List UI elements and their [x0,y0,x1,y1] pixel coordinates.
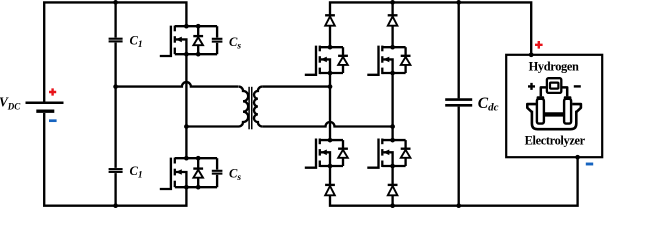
capacitor C1 (lower) [109,169,123,172]
electrolyzer - terminal mark [586,163,593,166]
wire: C1 bottom lead [114,173,116,206]
capacitor Cdc [445,100,472,106]
wire: right leg top lead [391,2,393,15]
node: bottom rail / C1 junction [113,203,118,208]
node: secondary top / left leg junction [328,84,333,89]
diode D3 (left leg bottom) [325,185,335,195]
diode D2 (right leg top) [388,15,398,25]
wire: lower C1 branch [114,87,116,168]
wire: secondary top rail and electrolyzer positive feed [330,2,531,54]
electrolyzer icon [527,78,581,129]
electrolyzer box [506,55,602,157]
svg-text:Hydrogen: Hydrogen [529,60,579,74]
wire: battery top lead, primary top rail, Q1 drain lead [44,2,186,101]
wire: upper C1 branch [114,2,116,37]
wire: switch-leg vertical between Q1 and Q2 [185,54,187,158]
wire: Cdc bottom lead [458,107,460,206]
node: top rail / right leg junction [390,0,395,5]
node: bottom rail / right leg junction [390,203,395,208]
svg-text:Electrolyzer: Electrolyzer [525,133,586,147]
wire: secondary bottom wire with hop over left leg [262,122,392,127]
capacitor C1 (upper) [109,39,123,42]
wire: secondary top wire to left bridge leg [262,85,330,87]
node: C1 midpoint junction [113,84,118,89]
capacitor Cs (lower snubber) [212,158,223,187]
node: top rail / C1 branch junction [113,0,118,5]
wire: right leg mid vertical [391,73,393,140]
mosfet Q4 (bridge upper right) [367,45,410,75]
svg-text:C1: C1 [130,164,143,181]
capacitor Cs (upper snubber) [212,26,223,54]
wire: D1 to Q3 drain [329,26,331,48]
node: electrolyzer positive terminal [529,52,534,57]
mosfet Q6 (bridge lower right) [367,138,410,169]
battery + polarity mark [49,88,56,95]
transformer secondary winding [254,87,262,127]
battery V_DC [26,103,64,111]
svg-text:Cs: Cs [229,166,241,183]
wire: Q5 source to D3 [329,166,331,185]
diode D4 (right leg bottom) [388,185,398,195]
electrolyzer + terminal mark [535,41,543,49]
battery - polarity mark [49,119,57,122]
node: secondary bottom / right leg junction [390,124,395,129]
diode D1 (left leg top) [325,15,335,25]
mosfet Q5 (bridge lower left) [305,138,348,169]
wire: secondary bottom rail and electrolyzer negative feed [330,157,578,206]
wire: left leg mid vertical [329,73,331,140]
transformer core [249,87,252,130]
node: primary winding return junction [184,124,189,129]
wire: Cdc top lead [458,2,460,98]
mosfet Q1 (primary upper) [160,24,217,57]
wire: C1 midpoint branch [114,43,116,87]
node: electrolyzer negative terminal [575,155,580,160]
mosfet Q2 (primary lower) [160,156,217,190]
wire: primary mid wire with hop over switch leg [116,82,239,87]
node: top rail / Cdc junction [456,0,461,5]
transformer primary winding [186,87,248,127]
svg-text:VDC: VDC [0,94,21,111]
wire: battery bottom lead, primary bottom rail, Q2 source lead [44,113,186,206]
wire: D2 to Q4 drain [391,26,393,48]
svg-text:Cs: Cs [229,35,241,52]
svg-text:C1: C1 [130,34,143,51]
mosfet Q3 (bridge upper left) [305,45,348,75]
wire: Q6 source to D4 [391,166,393,185]
svg-text:Cdc: Cdc [478,95,499,114]
wire: right leg bottom lead [391,195,393,205]
node: bottom rail / Cdc junction [456,203,461,208]
